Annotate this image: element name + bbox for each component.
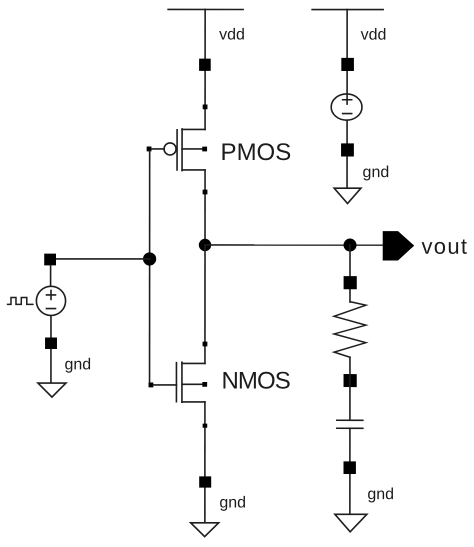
wire PMOS gate stub	[151, 148, 164, 150]
wire resistor to capacitor	[349, 357, 351, 420]
wire vdd rail to source V2	[346, 10, 348, 94]
transistor NMOS	[176, 362, 205, 402]
svg-text:gnd: gnd	[219, 494, 246, 511]
wire vdd rail to PMOS drain	[204, 9, 206, 129]
wire vdd rail (right)	[312, 9, 383, 11]
port square below resistor	[344, 374, 357, 387]
pulse waveform glyph	[8, 297, 33, 304]
wire port to pulse source	[50, 265, 52, 286]
pin square NMOS source	[203, 424, 208, 428]
voltage source V1 (pulse)	[36, 286, 65, 315]
pin square PMOS bulk	[202, 147, 207, 152]
wire PMOS source to output node	[204, 170, 206, 245]
wire vout node to resistor	[349, 245, 351, 302]
wire vdd rail (left)	[168, 8, 243, 10]
wire output node to NMOS drain	[204, 245, 206, 364]
port square above resistor	[344, 276, 357, 289]
node vout junction	[344, 239, 357, 252]
wire capacitor to gnd	[349, 428, 351, 514]
pin square NMOS bulk	[202, 382, 207, 387]
ground symbol (load branch)	[335, 514, 367, 532]
wire input horizontal	[56, 258, 150, 260]
port gnd (right branch)	[341, 143, 354, 156]
port gnd (load branch)	[343, 461, 355, 474]
wire output horizontal	[205, 244, 383, 246]
pin square NMOS gate	[149, 383, 154, 388]
voltage source V2 (DC)	[331, 94, 362, 120]
resistor	[334, 302, 366, 358]
ground symbol (bottom center)	[191, 523, 219, 537]
node inverter output junction	[199, 239, 211, 251]
node input junction	[143, 252, 156, 265]
pin square PMOS gate	[147, 147, 152, 152]
ground symbol (pulse branch)	[38, 383, 66, 397]
wire gate column	[149, 151, 151, 383]
svg-text:gnd: gnd	[363, 164, 390, 181]
port gnd (pulse branch)	[45, 337, 57, 349]
transistor PMOS	[164, 129, 205, 171]
svg-text:NMOS: NMOS	[221, 367, 289, 394]
wire NMOS source to gnd	[204, 402, 206, 523]
svg-text:gnd: gnd	[367, 486, 394, 503]
wire pulse source to gnd port	[50, 316, 52, 383]
port vout (output arrow)	[383, 231, 415, 260]
capacitor	[337, 420, 363, 428]
pin square PMOS drain	[203, 104, 208, 109]
svg-text:gnd: gnd	[64, 356, 91, 373]
port input (top of pulse source)	[44, 254, 56, 266]
svg-text:PMOS: PMOS	[221, 139, 292, 166]
port VDD (left)	[199, 59, 211, 71]
wire NMOS gate stub	[153, 384, 176, 386]
pin square NMOS drain	[203, 342, 208, 347]
svg-text:vdd: vdd	[219, 26, 245, 43]
ground symbol (right branch)	[334, 188, 361, 203]
pin square PMOS source	[203, 190, 208, 195]
svg-text:vout: vout	[422, 234, 469, 259]
port gnd (bottom center)	[199, 476, 211, 487]
svg-text:vdd: vdd	[361, 27, 387, 44]
wire V2 to gnd port	[346, 120, 348, 188]
port VDD (right)	[341, 58, 354, 71]
